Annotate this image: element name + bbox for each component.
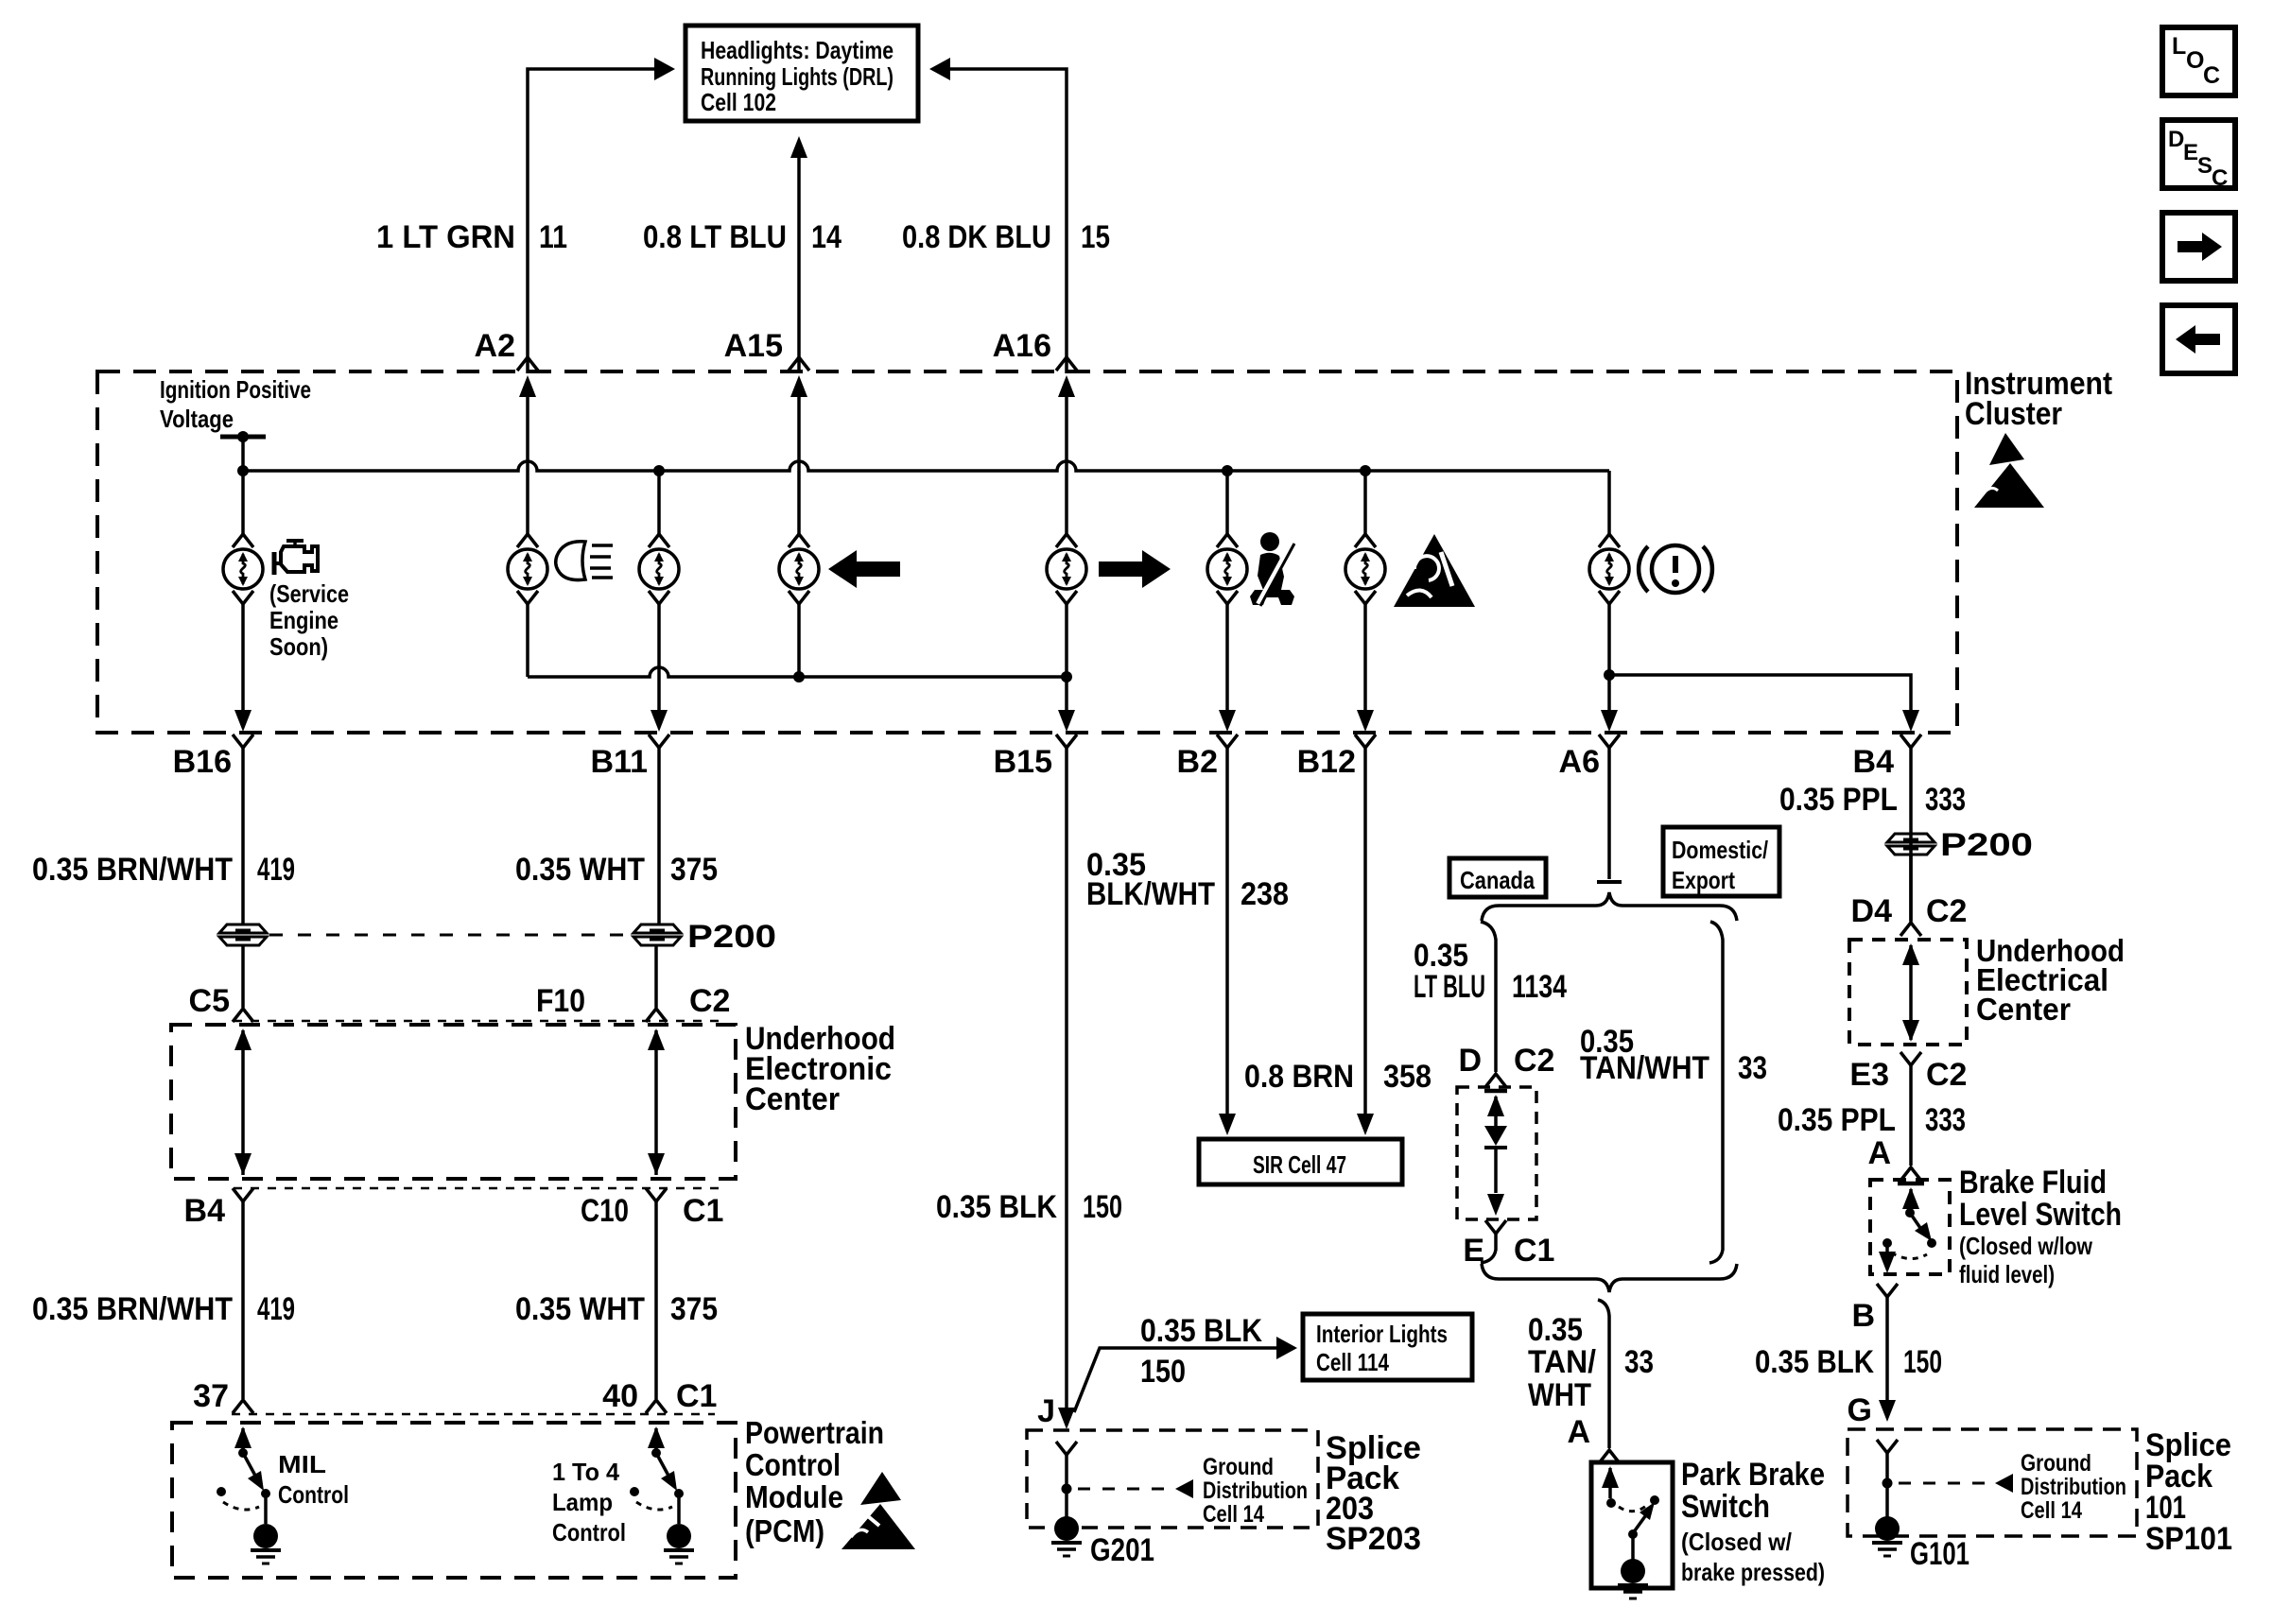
wire: ckt 333 to brake fluid level switch (1909, 1065, 1913, 1166)
wire: bus to 1-to-4 lamp (657, 471, 661, 534)
lamp: fasten seatbelt indicator (1217, 534, 1238, 547)
wire: through UEC (left) with entry/exit arrows (234, 1028, 252, 1050)
svg-text:Cell 114: Cell 114 (1316, 1348, 1389, 1376)
connector boundary line B4/C10 (thin dashed) (234, 1187, 727, 1190)
svg-text:Powertrain: Powertrain (745, 1415, 884, 1450)
box: Domestic/Export option (1663, 827, 1779, 896)
svg-text:B15: B15 (994, 744, 1052, 780)
switch: brake fluid level (closed w/ low fluid level) (1902, 1187, 1919, 1209)
wire: ckt 375 from B11 to connector P200 (657, 748, 661, 924)
pin C10 / C1 (UEC exit right) (646, 1188, 667, 1201)
svg-text:TAN/WHT: TAN/WHT (1580, 1050, 1709, 1086)
wire: 0.8 LT BLU ckt 14 from A15 up to DRL cell (arrow up) (797, 157, 801, 373)
svg-text:P200: P200 (1940, 827, 2033, 863)
lamp: left turn indicator (789, 534, 809, 547)
svg-text:C: C (2212, 165, 2228, 191)
svg-text:0.35: 0.35 (1528, 1312, 1583, 1348)
svg-text:0.8 LT BLU: 0.8 LT BLU (643, 219, 787, 255)
svg-text:brake pressed): brake pressed) (1681, 1558, 1825, 1586)
wire: A2 to headlight-on lamp (526, 394, 529, 534)
svg-text:fluid level): fluid level) (1959, 1260, 2055, 1288)
svg-text:Canada: Canada (1460, 866, 1535, 894)
svg-text:0.35 BLK: 0.35 BLK (1755, 1344, 1874, 1380)
svg-text:419: 419 (257, 1291, 295, 1327)
svg-text:Park Brake: Park Brake (1681, 1457, 1825, 1493)
svg-text:150: 150 (1083, 1189, 1122, 1225)
terminal bar (diode top) (1484, 1089, 1507, 1094)
splice pack SP101 enclosure (dashed) (1848, 1429, 2137, 1536)
svg-text:(Closed w/low: (Closed w/low (1959, 1232, 2093, 1260)
terminal bar at option split (1597, 880, 1622, 884)
box: Headlights Daytime Running Lights (DRL) Cell 102 (685, 26, 918, 121)
ground G101 (1875, 1516, 1900, 1541)
junction: brake lamp branch to B4 (1604, 669, 1615, 681)
svg-text:B: B (1851, 1298, 1875, 1334)
pin B (brake fluid switch exit) (1877, 1284, 1898, 1297)
svg-text:A6: A6 (1559, 744, 1600, 780)
svg-text:Engine: Engine (269, 606, 338, 634)
svg-text:14: 14 (811, 219, 842, 255)
svg-text:375: 375 (670, 852, 718, 888)
wire: seatbelt lamp to pin B2 (1225, 604, 1229, 711)
svg-text:375: 375 (670, 1291, 718, 1327)
svg-text:SP203: SP203 (1326, 1521, 1421, 1557)
svg-text:15: 15 (1081, 219, 1110, 255)
connector P200 (inline) (633, 924, 681, 933)
svg-text:0.35 BRN/WHT: 0.35 BRN/WHT (32, 1291, 233, 1327)
svg-text:E3: E3 (1849, 1057, 1889, 1093)
svg-text:Cell 14: Cell 14 (1203, 1501, 1264, 1528)
lamp: brake warning indicator (1599, 534, 1620, 547)
diode (inline, cathode down) (1487, 1095, 1504, 1116)
svg-text:11: 11 (539, 219, 567, 255)
svg-text:Soon): Soon) (269, 632, 328, 661)
svg-text:Control: Control (278, 1480, 349, 1509)
svg-text:150: 150 (1140, 1354, 1186, 1390)
diode module enclosure (dashed) (1457, 1087, 1536, 1219)
wire: ckt 150 from B15 down to splice pack SP203 (1065, 748, 1068, 1410)
svg-text:B11: B11 (591, 744, 649, 780)
svg-text:B16: B16 (173, 744, 232, 780)
svg-text:333: 333 (1925, 782, 1966, 818)
svg-text:Domestic/: Domestic/ (1672, 836, 1768, 864)
icon: engine pictogram (286, 539, 304, 543)
svg-text:P200: P200 (687, 919, 776, 955)
svg-text:C2: C2 (1926, 1057, 1967, 1093)
svg-text:Distribution: Distribution (2021, 1474, 2126, 1500)
wire: connector to UEC pin C5 (241, 946, 245, 1008)
ground G201 (1054, 1516, 1079, 1541)
svg-text:0.35 BRN/WHT: 0.35 BRN/WHT (32, 852, 233, 888)
svg-text:Running Lights (DRL): Running Lights (DRL) (701, 62, 894, 91)
svg-text:S: S (2197, 153, 2212, 179)
svg-text:D: D (2168, 127, 2184, 152)
svg-text:Cell 102: Cell 102 (701, 88, 776, 116)
svg-text:1134: 1134 (1512, 969, 1567, 1005)
wire: P200 to UEC pin F10 (654, 946, 658, 1008)
svg-text:SP101: SP101 (2145, 1521, 2232, 1557)
box: Canada option (1449, 858, 1546, 897)
lamp: airbag (SIR) indicator (1355, 534, 1376, 547)
svg-text:O: O (2186, 47, 2204, 74)
svg-text:G101: G101 (1910, 1536, 1969, 1572)
connector P200 (right inline) (1887, 834, 1935, 842)
wire: pin A6 down to option split (1607, 748, 1611, 879)
svg-text:A15: A15 (724, 328, 783, 364)
lamp: headlight-on indicator (517, 534, 538, 547)
svg-text:B4: B4 (184, 1193, 226, 1229)
pin B12 of instrument cluster (exit) (1355, 734, 1376, 748)
switch: park brake (closed w/ brake pressed) (1602, 1466, 1619, 1488)
svg-text:Brake Fluid: Brake Fluid (1959, 1165, 2107, 1201)
splice pack SP203 enclosure (dashed) (1027, 1430, 1318, 1528)
pin B15 of instrument cluster (exit) (1056, 734, 1077, 748)
svg-text:B12: B12 (1297, 744, 1356, 780)
svg-text:333: 333 (1925, 1102, 1966, 1138)
wire: splice pack 101 internal (1885, 1453, 1889, 1518)
wire: 0.8 DK BLU ckt 15 from A16 to DRL cell (arrow into box) (948, 69, 1067, 373)
svg-text:Control: Control (745, 1447, 841, 1482)
wire: airbag lamp to pin B12 (1363, 604, 1367, 711)
pin J entry chevron (SP203) (1056, 1442, 1077, 1455)
switch: MIL control driver (inside PCM) (234, 1426, 252, 1448)
svg-text:B2: B2 (1177, 744, 1218, 780)
svg-text:G201: G201 (1090, 1532, 1154, 1568)
box: SIR Cell 47 (1199, 1139, 1402, 1184)
svg-text:Interior Lights: Interior Lights (1316, 1320, 1448, 1348)
wire: P200 to UEC pin D4 (1909, 855, 1913, 921)
svg-text:33: 33 (1738, 1050, 1767, 1086)
pin E3 / C2 (UEC bottom) (1900, 1052, 1921, 1065)
box: Interior Lights Cell 114 (1303, 1314, 1472, 1380)
svg-text:Voltage: Voltage (160, 405, 234, 433)
svg-text:Cluster: Cluster (1965, 396, 2062, 432)
svg-text:Ground: Ground (2021, 1450, 2091, 1477)
wire: splice pack 203 internal (1065, 1455, 1068, 1518)
svg-text:1 To 4: 1 To 4 (552, 1458, 620, 1486)
connector tie line to P200 (dashed) (269, 934, 632, 937)
svg-text:0.35 WHT: 0.35 WHT (515, 852, 645, 888)
wire: A16 to right-turn lamp (1065, 394, 1068, 534)
svg-text:150: 150 (1903, 1344, 1942, 1380)
pin B4 of instrument cluster (exit) (1900, 734, 1921, 748)
wire: ignition positive feed drop (241, 437, 245, 471)
wire: Canada branch to option merge (1481, 1234, 1496, 1263)
svg-text:MIL: MIL (278, 1450, 326, 1478)
wire: 1-to-4 lamp to pin B11 (passes lamp return bus) (657, 604, 661, 711)
wire: through UEC (right) with entry/exit arrows (648, 1028, 665, 1050)
ground distribution tap (dashed) with arrow (SP101) (1899, 1482, 1987, 1485)
option merge brace (lower) (1482, 1264, 1737, 1292)
wire: bus to seatbelt lamp (1225, 471, 1229, 534)
svg-text:40: 40 (602, 1378, 638, 1414)
svg-text:0.35 BLK: 0.35 BLK (1140, 1313, 1262, 1349)
junction: bus to seatbelt lamp (1222, 465, 1233, 476)
svg-text:B4: B4 (1853, 744, 1895, 780)
svg-text:C2: C2 (1926, 893, 1967, 929)
connector boundary line at PCM (thin dashed) (232, 1413, 715, 1416)
svg-text:Ignition Positive: Ignition Positive (160, 375, 311, 404)
lamp: right turn indicator (1056, 534, 1077, 547)
lamp: 1 To 4 lamp-control indicator (649, 534, 669, 547)
svg-text:Center: Center (1976, 992, 2071, 1027)
svg-text:C1: C1 (683, 1193, 723, 1229)
icon: brake warning ((!)) (1652, 545, 1699, 593)
legend box: DESC (2162, 120, 2235, 188)
svg-text:J: J (1037, 1393, 1055, 1429)
svg-text:Cell 14: Cell 14 (2021, 1497, 2082, 1524)
icon: seatbelt pictogram (1260, 532, 1279, 551)
svg-text:C10: C10 (581, 1193, 629, 1229)
terminal bar (brake fluid switch) (1898, 1182, 1924, 1186)
junction: bus to airbag lamp (1360, 465, 1371, 476)
svg-text:C2: C2 (1514, 1043, 1554, 1079)
wire: ckt 419 from B16 to connector P200 (241, 748, 245, 924)
svg-text:C2: C2 (689, 983, 730, 1019)
wire: ckt 375 from UEC C10 to PCM pin 40 (654, 1201, 658, 1399)
junction: splice 101 (1883, 1478, 1893, 1489)
ESD static sensitive symbol (PCM) (842, 1504, 915, 1549)
svg-text:0.35 PPL: 0.35 PPL (1779, 782, 1898, 818)
svg-text:0.35 PPL: 0.35 PPL (1778, 1102, 1896, 1138)
wire: merged ckt 33 to park brake switch (1598, 1300, 1609, 1448)
legend box: LOC (2162, 27, 2235, 95)
switch: 1 To 4 lamp control driver (inside PCM) (648, 1426, 665, 1448)
svg-text:Distribution: Distribution (1203, 1477, 1308, 1504)
pin B11 of instrument cluster (exit) (649, 734, 669, 748)
svg-text:0.35 BLK: 0.35 BLK (936, 1189, 1057, 1225)
wire: ckt 333 from B4 to P200 (1909, 748, 1913, 924)
wire: bus corner down to brake lamp (1607, 471, 1611, 534)
junction: right-turn lamp / B15 at return bus (1061, 671, 1072, 682)
pin G entry chevron (SP101) (1877, 1440, 1898, 1453)
svg-text:F10: F10 (536, 983, 585, 1019)
icon: headlight symbol (556, 542, 585, 580)
pin B16 of instrument cluster (exit) (233, 734, 253, 748)
option split brace (upper) (1482, 892, 1737, 921)
icon: left turn arrow (828, 550, 900, 588)
pin arrows into instrument cluster at A2/A15/A16 (519, 375, 536, 397)
svg-text:A: A (1867, 1135, 1891, 1171)
svg-text:1 LT GRN: 1 LT GRN (376, 219, 515, 255)
wire: MIL lamp to pin B16 (241, 604, 245, 711)
connector: inline pass-through (left, pairs with P200) (219, 924, 267, 933)
wire: right-turn lamp to pin B15 (1065, 604, 1068, 711)
box: Park Brake Switch (solid) (1591, 1462, 1673, 1588)
svg-text:Center: Center (745, 1081, 840, 1117)
underhood electronic center enclosure (dashed) (171, 1025, 736, 1179)
svg-text:0.35 WHT: 0.35 WHT (515, 1291, 645, 1327)
svg-text:TAN/: TAN/ (1528, 1344, 1597, 1380)
svg-text:Control: Control (552, 1518, 626, 1546)
pin chevron A (brake fluid level switch) (1900, 1167, 1921, 1181)
svg-text:Level Switch: Level Switch (1959, 1197, 2122, 1233)
wire: brake lamp to pin A6 (1607, 604, 1611, 711)
svg-text:C: C (2203, 62, 2220, 89)
wire: left-turn lamp to lamp return bus (797, 604, 801, 677)
lamp: MIL indicator (Service Engine Soon) (233, 534, 253, 547)
svg-text:0.8 BRN: 0.8 BRN (1244, 1059, 1354, 1095)
powertrain control module enclosure (dashed) (172, 1423, 736, 1578)
svg-text:(Service: (Service (269, 579, 349, 608)
pin B4 (UEC exit left) (233, 1188, 253, 1201)
svg-text:Lamp: Lamp (552, 1488, 613, 1516)
wire: bus to airbag lamp (1363, 471, 1367, 534)
wire: A15 to left-turn lamp (797, 394, 801, 534)
power terminal: ignition positive voltage bar (220, 435, 266, 440)
svg-text:WHT: WHT (1528, 1377, 1591, 1413)
icon: right turn arrow (1099, 550, 1171, 588)
connector boundary line C5/F10 (thin dashed) (234, 1020, 727, 1023)
wire: through underhood electrical center (1902, 943, 1919, 965)
wire: branch 0.35 BLK 150 to interior lights (arrow) (1074, 1348, 1278, 1412)
svg-text:LT BLU: LT BLU (1414, 969, 1485, 1005)
ground distribution tap (dashed) with arrow (SP203) (1078, 1488, 1168, 1491)
pin A6 of instrument cluster (exit) (1599, 734, 1620, 748)
svg-text:E: E (2183, 140, 2198, 165)
svg-text:C1: C1 (1514, 1233, 1554, 1269)
junction: splice 203 (1062, 1484, 1072, 1494)
pin B2 of instrument cluster (exit) (1217, 734, 1238, 748)
svg-text:Switch: Switch (1681, 1489, 1770, 1525)
brake fluid level switch enclosure (dashed) (1870, 1180, 1950, 1274)
svg-text:358: 358 (1383, 1059, 1431, 1095)
ESD static sensitive symbol (instrument cluster) (1974, 463, 2044, 508)
svg-text:G: G (1848, 1392, 1872, 1428)
junction: left-turn lamp to return bus (793, 671, 805, 682)
svg-text:D4: D4 (1851, 893, 1893, 929)
svg-text:0.8 DK BLU: 0.8 DK BLU (902, 219, 1051, 255)
underhood electrical center enclosure (dashed) (1849, 940, 1967, 1045)
wire: bus to MIL lamp (241, 471, 245, 534)
wire: ckt 419 from UEC B4 to PCM pin 37 (241, 1201, 245, 1399)
wire: ckt 238 from B2 to SIR cell 47 (arrow down) (1225, 748, 1229, 1114)
legend box: right arrow (2162, 213, 2235, 281)
junction: bus to B11 lamp (653, 465, 665, 476)
svg-text:C1: C1 (676, 1378, 717, 1414)
svg-text:(Closed w/: (Closed w/ (1681, 1528, 1792, 1556)
wire: ckt 358 from B12 to SIR cell 47 (arrow down) (1363, 748, 1367, 1114)
icon: airbag pictogram (triangle with occupant) (1394, 534, 1475, 607)
legend box: left arrow (2162, 305, 2235, 373)
wire: brake lamp branch to pin B4 (1609, 675, 1911, 711)
svg-text:A: A (1567, 1414, 1590, 1450)
svg-text:A2: A2 (475, 328, 515, 364)
instrument cluster enclosure (dashed) (97, 371, 1957, 733)
svg-text:33: 33 (1624, 1344, 1654, 1380)
svg-text:BLK/WHT: BLK/WHT (1086, 876, 1215, 912)
svg-text:419: 419 (257, 852, 295, 888)
junction: bus to MIL lamp (237, 465, 249, 476)
svg-text:D: D (1458, 1043, 1482, 1079)
pin chevron A (park brake switch) (1599, 1450, 1620, 1463)
svg-text:A16: A16 (993, 328, 1051, 364)
wire: Canada branch ckt 1134 (hook to D pin) (1481, 922, 1496, 1072)
svg-text:Headlights: Daytime: Headlights: Daytime (701, 36, 894, 64)
svg-text:(PCM): (PCM) (745, 1513, 824, 1548)
wire: Domestic/Export branch ckt 33 (hook) (1709, 922, 1723, 1263)
svg-text:238: 238 (1241, 876, 1289, 912)
svg-text:Export: Export (1672, 866, 1735, 894)
svg-text:C5: C5 (189, 983, 230, 1019)
svg-text:Ground: Ground (1203, 1454, 1274, 1480)
lamp return bus wire (hops over B11 wire) (528, 667, 1067, 677)
pin E / C1 (diode connector bottom) (1485, 1220, 1506, 1234)
svg-text:Module: Module (745, 1479, 843, 1514)
svg-text:37: 37 (193, 1378, 229, 1414)
wire: 1 LT GRN ckt 11 from A2 to DRL cell (arrow into box) (528, 69, 654, 373)
bus wire: ignition positive voltage bus (hops over A2/A15/A16 wires) (243, 461, 1609, 471)
wire: headlight lamp down to lamp return bus (526, 604, 529, 677)
svg-text:L: L (2172, 33, 2186, 60)
wire: ckt 150 from switch to splice pack SP101 (1885, 1297, 1889, 1401)
svg-text:SIR Cell 47: SIR Cell 47 (1253, 1150, 1346, 1179)
